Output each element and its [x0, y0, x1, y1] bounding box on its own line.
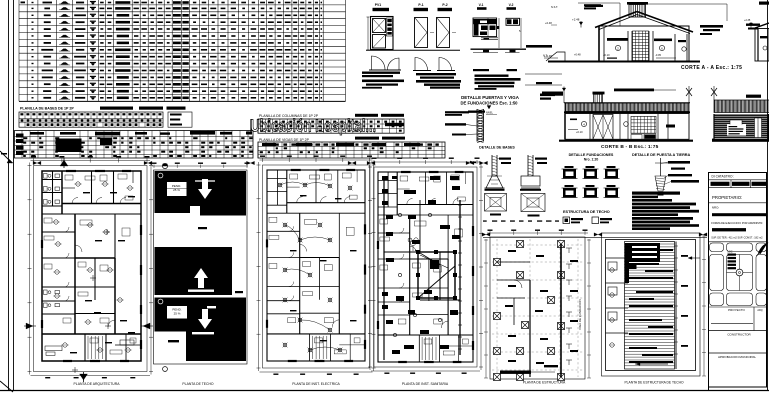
svg-text:+0.10: +0.10: [576, 130, 583, 134]
plan 1 room number circles: [76, 182, 80, 186]
footing plan square 1: [485, 194, 507, 212]
plan 5 column symbols: [517, 241, 524, 248]
plan 2 circled marks: [158, 173, 163, 178]
svg-text:DETALLE DE PUESTA A TIERRA: DETALLE DE PUESTA A TIERRA: [632, 153, 691, 157]
svg-text:PLANTA DE ESTRUCTURA DE TECHO: PLANTA DE ESTRUCTURA DE TECHO: [624, 381, 683, 385]
svg-text:PLANTA DE INST. SANITARIA: PLANTA DE INST. SANITARIA: [402, 382, 449, 386]
plan 1 bathroom fixtures: [44, 174, 48, 179]
plan 2 white label box top: [167, 182, 187, 196]
plan 5 right T marks: [566, 247, 572, 249]
door swing arc P1: [415, 58, 428, 71]
plan 2 white arrow down bottom: [198, 309, 212, 329]
svg-text:Nro. 1:20: Nro. 1:20: [584, 158, 599, 162]
top right black bar: [759, 2, 769, 5]
plan 6 left partitions: [606, 257, 629, 259]
plan 5 right wall thick: [560, 244, 562, 377]
plan 4 black fixtures: [382, 176, 388, 180]
svg-text:PLANTA DE TECHO: PLANTA DE TECHO: [182, 382, 214, 386]
plan 2 top dim: [152, 165, 248, 167]
plan 2 white arrow up middle: [194, 268, 208, 288]
tick marks above plan4 right: [470, 161, 476, 163]
windows baseline: [471, 48, 527, 50]
svg-text:+2.48: +2.48: [572, 18, 580, 22]
plan 1 small text dashes: [83, 192, 90, 193]
plans 5-6 long top line: [483, 236, 707, 238]
map circle: [736, 269, 743, 276]
flag above plan 2: [162, 163, 167, 168]
sheet border bottom: [0, 390, 769, 392]
plan 6 joist black bars: [629, 249, 673, 251]
door P1 drawing: [415, 18, 428, 48]
corte A-A ground line: [548, 61, 700, 63]
plan 6 left room circles: [610, 268, 614, 272]
text block under PV1: [362, 72, 400, 74]
svg-text:25 %: 25 %: [174, 312, 181, 316]
footing detail 1 elevation: [491, 155, 493, 176]
text block under V1 V2: [475, 75, 509, 77]
corte B-B circled numbers: [581, 121, 586, 126]
corte B-B marks: [666, 125, 675, 128]
svg-text:PROYECTO: PROYECTO: [728, 308, 745, 312]
tiny text row under detalle bases: [483, 220, 487, 221]
plan 1 planta de arquitectura: [42, 171, 141, 361]
plan 3 planta inst electrica: [267, 170, 365, 361]
plan 3 wiring arcs: [280, 182, 305, 185]
map inner cross: [727, 272, 753, 274]
svg-text:PLANTA DE INST. ELECTRICA: PLANTA DE INST. ELECTRICA: [292, 382, 340, 386]
plan 1 furniture bottom: [45, 346, 62, 351]
viga fundacion section ladder detail: [476, 109, 478, 142]
plan 6 bottom arrow: [640, 363, 668, 365]
ingreso marks below caption: [468, 111, 485, 113]
plan 3 small dashes: [300, 195, 307, 196]
door PV1 drawing: [371, 17, 394, 50]
door P2 drawing: [437, 18, 450, 48]
small marks left margin: [1, 153, 7, 155]
plan 4 tree squiggle: [410, 240, 415, 245]
map pen flourish: [758, 244, 767, 255]
corte B-B double door with X: [593, 115, 613, 140]
plan 1 side section arrows: [26, 323, 33, 329]
corner arrow left of plans: [0, 151, 12, 163]
plan 2 bottom-left dash: [168, 340, 179, 342]
footing detail 2 elevation: [527, 155, 529, 176]
corte B-B pergola hatched band: [565, 103, 689, 112]
corte B-B right fragment pergola: [714, 100, 769, 113]
corte B-B right fragment striped body: [714, 115, 769, 116]
plan 2 white arrow down top: [198, 179, 212, 199]
flag below plan 2: [163, 367, 168, 372]
map bottom line: [709, 306, 767, 308]
right fragment ground: [712, 139, 769, 142]
svg-text:PROPIETARIO:: PROPIETARIO:: [712, 195, 742, 200]
plan 5 left room outlines: [497, 261, 530, 263]
plan 3 lot and dims: [263, 165, 370, 368]
plan 2 bottom arrow: [210, 351, 243, 353]
plan 4 lot and dims: [374, 167, 477, 367]
corte A-A body: [599, 26, 689, 61]
plan 3 light circles: [278, 183, 282, 187]
plan 6 black square mark: [629, 264, 637, 269]
corte B-B right fragment label: [746, 95, 761, 98]
title block map: [709, 241, 767, 243]
puesta a tierra sketch: [660, 158, 662, 176]
plans 5-6 side dim lines: [485, 239, 487, 378]
plan 6 right wall: [675, 242, 677, 370]
corte A-A right annotation bars: [700, 25, 723, 28]
svg-text:CORTE A - A Esc.: 1:75: CORTE A - A Esc.: 1:75: [681, 65, 742, 71]
svg-text:N.T.: N.T.: [543, 54, 548, 58]
svg-text:Ubicación Hospital...: Ubicación Hospital...: [251, 116, 377, 135]
svg-text:ESTRUCTURA DE TECHO: ESTRUCTURA DE TECHO: [563, 210, 610, 214]
door swing arc P2: [439, 58, 452, 71]
plan 5 beam dashes: [508, 250, 516, 252]
puesta a tierra leader bars: [668, 161, 690, 164]
table bases right extension: [168, 112, 192, 127]
corte A-A chimney: [627, 2, 648, 5]
window V1 drawing: [473, 18, 497, 37]
svg-text:CONSTRUCTOR: CONSTRUCTOR: [727, 333, 751, 337]
plan 2 roof black mass middle: [155, 247, 233, 295]
corte B-B ground: [559, 140, 693, 142]
watermark Ubicacion Hospital: [251, 116, 377, 135]
corte A-A center grid door: [633, 31, 649, 61]
arrow left of title block: [692, 257, 700, 259]
svg-text:NRO:: NRO:: [712, 205, 719, 209]
svg-text:+2.35: +2.35: [744, 19, 751, 22]
plan 5 bottom annotation: [500, 371, 531, 374]
plan 2 roof black mass bottom: [155, 298, 247, 362]
footing plan square 2: [521, 194, 545, 212]
svg-text:+0.48: +0.48: [545, 21, 552, 25]
sheet border right: [767, 0, 769, 391]
svg-text:P-2: P-2: [442, 3, 447, 7]
corte A-A top leader lines: [578, 2, 620, 4]
plan 4 pipe lines: [383, 180, 385, 360]
plan 6 building outline: [606, 240, 696, 371]
svg-text:DETALLE DE BASES: DETALLE DE BASES: [479, 146, 515, 150]
svg-text:PLANILLA DE VIGAS DE 1P 2: PLANILLA DE VIGAS DE 1P 2P: [259, 138, 310, 142]
corte A-A lintel bars: [607, 38, 628, 41]
door swing arc PV1: [372, 56, 386, 70]
plan 6 lot rect: [602, 233, 701, 376]
plan 4 planta inst sanitaria: [378, 172, 473, 362]
cut bowtie marks above plans: [247, 161, 251, 165]
doors baseline: [366, 49, 460, 51]
svg-text:FORMA DE EJECUCION: POR ADMINI: FORMA DE EJECUCION: POR ADMINISTR.: [711, 221, 763, 225]
table F columnas: [258, 119, 404, 133]
corte A-A left level flag: [580, 21, 582, 28]
svg-text:N.S.T.: N.S.T.: [551, 5, 558, 9]
svg-text:+0.10: +0.10: [603, 53, 610, 57]
ladder annotation bars: [445, 111, 469, 113]
table bases small: [19, 112, 163, 127]
corner fold mark bottom-left: [0, 381, 13, 392]
sheet border left double line: [8, 0, 10, 391]
svg-text:PLANILLA DE BASES DE 1P 2: PLANILLA DE BASES DE 1P 2P: [20, 107, 74, 111]
svg-text:SUP. DE TER.: 411 m2 SUP. CO: SUP. DE TER.: 411 m2 SUP. CONST.: 182 m2: [711, 236, 763, 239]
svg-text:PV1: PV1: [375, 3, 382, 7]
corte A-A left ramp: [546, 52, 565, 61]
plan 2 white label box bottom: [167, 306, 187, 319]
corte B-B X joint marks: [686, 88, 692, 96]
svg-text:PLANTA DE ESTRUCTURA: PLANTA DE ESTRUCTURA: [523, 381, 566, 385]
corte B-B grid window: [631, 116, 656, 133]
title block three black bars row: [711, 182, 730, 186]
right fragment white panel with text: [727, 125, 746, 136]
svg-text:APROBACION MUNICIPAL: APROBACION MUNICIPAL: [718, 355, 756, 359]
svg-text:NIVEL: NIVEL: [486, 112, 494, 115]
plan 1 lower bathroom fixtures: [44, 290, 48, 294]
right fragment white door: [755, 118, 762, 138]
estructura symbols: [563, 217, 570, 224]
table G vigas: [258, 142, 445, 158]
plan 2 white dash in bottom mass: [207, 306, 216, 308]
corte B-B left level flag: [563, 87, 565, 104]
puesta a tierra text block: [632, 192, 680, 195]
svg-text:DETALLE FUNDACIONES: DETALLE FUNDACIONES: [569, 153, 614, 157]
svg-text:VIGA DE FUNDACION: VIGA DE FUNDACION: [578, 299, 582, 330]
plan 1 lot and dims: [34, 166, 148, 372]
svg-text:PLANTA DE ARQUITECTURA: PLANTA DE ARQUITECTURA: [74, 382, 121, 386]
right fragment level flag: [750, 22, 752, 28]
plan 1 central cross marks: [104, 231, 110, 233]
plan 4 central pipe loop: [418, 252, 455, 298]
small arrow under caption: [487, 106, 491, 110]
corte B-B body: [565, 114, 689, 140]
svg-text:V-1: V-1: [479, 3, 484, 7]
corte A-A right fragment: [755, 23, 769, 28]
plan 5 bottom texts: [544, 365, 558, 367]
plan 2 middle right dash: [235, 291, 243, 293]
svg-text:P-1: P-1: [418, 3, 423, 7]
plan 4 extra fixtures: [386, 215, 393, 219]
plan 5 axis lines: [492, 244, 583, 246]
svg-text:DETALLE PUERTAS Y VIGA: DETALLE PUERTAS Y VIGA: [461, 95, 520, 100]
corte B-B top annotations: [614, 89, 654, 92]
plan 2 planta de techo lot: [154, 170, 248, 364]
plan 1 section flags: [60, 160, 68, 166]
plan 6 dense top-left block: [625, 243, 660, 262]
plan 5 planta de estructura lot: [490, 237, 585, 379]
plan 6 right dashes: [681, 255, 688, 257]
svg-text:LOC: LOC: [728, 251, 733, 254]
svg-text:-0.05: -0.05: [655, 53, 661, 57]
title block outer: [709, 173, 767, 388]
table E lower-left planilla: [16, 134, 24, 138]
svg-text:+0.48: +0.48: [574, 53, 581, 57]
window V2 drawing: [506, 18, 520, 25]
plan 4 small circles: [398, 213, 401, 216]
big table planilla top-left: [19, 4, 346, 6]
right annotation leaders: [526, 45, 552, 48]
plan 2 roof black mass top: [155, 171, 247, 216]
fundaciones six cells: [563, 169, 576, 179]
corte B-B chimney: [593, 92, 605, 95]
right fragment white window: [730, 120, 742, 128]
svg-text:V-2: V-2: [509, 3, 514, 7]
text block under P1 P2: [416, 73, 456, 75]
sill dashes under V1 V2: [473, 69, 489, 71]
corte A-A roof: [595, 12, 637, 28]
svg-text:CORTE B - B Esc.: 1:75: CORTE B - B Esc.: 1:75: [601, 144, 659, 150]
map stamp: [728, 254, 737, 256]
svg-text:DI CATASTRO :: DI CATASTRO :: [712, 174, 735, 178]
corte A-A circled numbers: [615, 45, 620, 50]
svg-text:ARQ: ARQ: [757, 309, 762, 312]
plan 5 top dim: [487, 232, 588, 234]
svg-text:DE FUNDACIONES Esc. 1:50: DE FUNDACIONES Esc. 1:50: [460, 100, 518, 105]
plan 6 joist band: [625, 242, 675, 370]
plan 4 pipe diagonals: [415, 250, 440, 265]
plan 2 middle dash: [198, 227, 207, 229]
